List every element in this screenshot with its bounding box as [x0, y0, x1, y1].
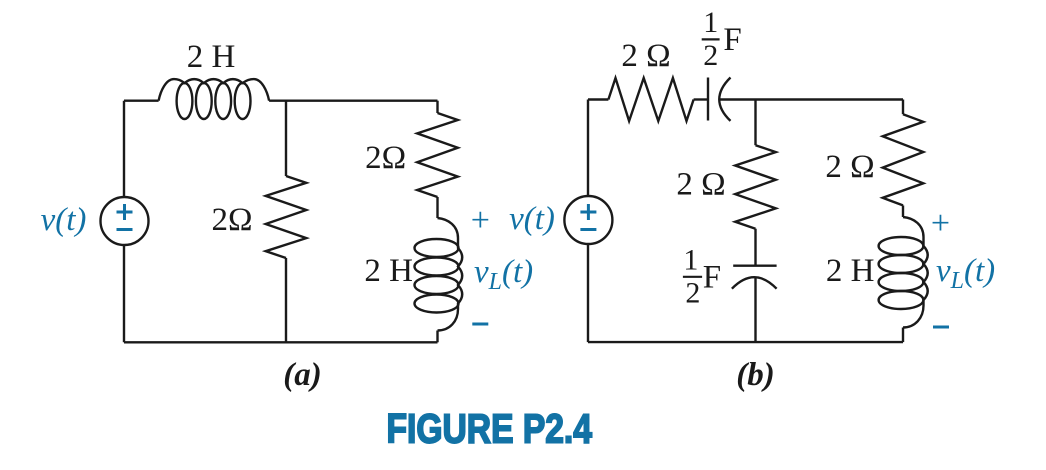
wire: circuit (a) left branch top segment — [123, 101, 125, 197]
svg-text:2 Ω: 2 Ω — [825, 149, 874, 185]
svg-text:2 Ω: 2 Ω — [621, 38, 670, 74]
wire: circuit (a) right branch bottom stub — [436, 331, 438, 343]
wire: circuit (b) right branch bottom stub — [902, 328, 904, 343]
capacitor 1/2 F top, circuit (b): flat plate — [707, 78, 709, 121]
resistor 2 &#937; right, circuit (b) — [883, 114, 924, 205]
svg-text:vL(t): vL(t) — [474, 254, 533, 295]
wire: circuit (a) bottom horizontal — [124, 341, 438, 343]
svg-text:+: + — [931, 205, 950, 242]
svg-text:2Ω: 2Ω — [365, 140, 406, 176]
wire: circuit (b) middle branch between R and C — [754, 229, 756, 266]
wire: circuit (b) left branch bottom segment — [587, 244, 589, 342]
wire: circuit (a) top horizontal to right branch — [269, 99, 437, 101]
voltage source (b) plus mark — [580, 204, 596, 220]
inductor 2 H right, circuit (b) — [879, 217, 928, 328]
label 1/2 F (middle capacitor, b) — [683, 243, 721, 309]
svg-text:F: F — [703, 260, 721, 296]
svg-text:2: 2 — [703, 39, 718, 72]
inductor 2 H right, circuit (a) — [415, 218, 463, 331]
svg-text:(a): (a) — [283, 357, 321, 393]
voltage source v(t) circuit (a) — [101, 197, 149, 245]
svg-text:v(t): v(t) — [41, 202, 87, 238]
capacitor 1/2 F middle, circuit (b): curved plate — [732, 277, 777, 289]
voltage source v(t) circuit (b) — [564, 196, 612, 244]
svg-text:1: 1 — [703, 6, 718, 39]
wire: circuit (b) bottom horizontal — [588, 341, 903, 343]
wire: circuit (b) middle branch upper — [754, 100, 756, 146]
wire: stub between top resistor and capacitor (b) — [694, 98, 708, 100]
wire: circuit (a) right branch between R and L — [436, 197, 438, 218]
voltage source (b) minus mark — [580, 228, 596, 231]
svg-text:2 H: 2 H — [364, 253, 413, 289]
wire: circuit (b) left branch top segment — [587, 100, 589, 197]
capacitor 1/2 F middle, circuit (b): flat plate — [733, 265, 776, 267]
resistor 2&#937; right, circuit (a) — [417, 113, 458, 197]
svg-text:2: 2 — [685, 276, 700, 309]
svg-text:2 H: 2 H — [826, 253, 875, 289]
svg-text:1: 1 — [683, 243, 698, 276]
voltage source (a) plus mark — [117, 204, 133, 220]
wire: circuit (b) top-left stub — [588, 98, 608, 100]
svg-text:F: F — [723, 22, 741, 58]
svg-text:FIGURE P2.4: FIGURE P2.4 — [387, 405, 593, 451]
capacitor 1/2 F top, circuit (b): curved plate — [719, 78, 730, 121]
svg-text:2 H: 2 H — [187, 39, 236, 75]
resistor 2 &#937; top, circuit (b) — [608, 78, 693, 121]
wire: circuit (a) right branch upper — [436, 101, 438, 113]
wire: circuit (b) right branch between R and L — [902, 205, 904, 217]
resistor 2&#937; middle, circuit (a) — [266, 176, 307, 258]
label 1/2 F (top capacitor, b) — [702, 6, 742, 72]
label minus polarity v_L (a) — [472, 323, 488, 326]
wire: circuit (b) right branch upper — [902, 100, 904, 115]
voltage source (a) minus mark — [117, 228, 133, 231]
svg-text:+: + — [471, 202, 490, 239]
resistor 2 &#937; middle, circuit (b) — [735, 145, 776, 229]
svg-text:2Ω: 2Ω — [211, 202, 252, 238]
inductor 2 H top, circuit (a) — [159, 79, 270, 119]
wire: circuit (b) top horizontal from capacitor to right branch — [719, 98, 903, 100]
svg-text:v(t): v(t) — [509, 201, 555, 237]
wire: circuit (a) top-left horizontal — [124, 99, 159, 101]
wire: circuit (a) middle branch upper — [285, 101, 287, 176]
svg-text:2 Ω: 2 Ω — [676, 167, 725, 203]
svg-text:(b): (b) — [736, 357, 774, 393]
svg-text:vL(t): vL(t) — [936, 253, 995, 294]
wire: circuit (b) middle branch lower — [754, 277, 756, 342]
wire: circuit (a) middle branch lower — [285, 258, 287, 342]
label minus polarity v_L (b) — [933, 326, 949, 329]
wire: circuit (a) left branch bottom segment — [123, 245, 125, 342]
